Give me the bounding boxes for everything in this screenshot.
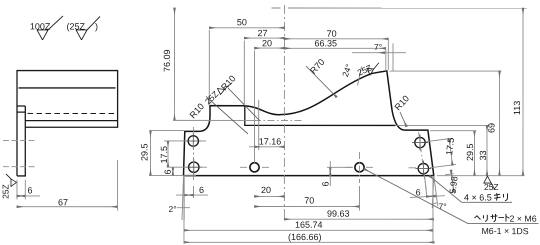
svg-text:25Z: 25Z xyxy=(484,182,499,192)
svg-text:R10: R10 xyxy=(188,101,206,120)
svg-text:33: 33 xyxy=(478,151,488,161)
svg-text:165.74: 165.74 xyxy=(295,220,323,230)
svg-text:6: 6 xyxy=(27,185,32,195)
svg-text:25Z: 25Z xyxy=(0,184,10,199)
svg-text:6: 6 xyxy=(163,169,173,174)
svg-text:5.98: 5.98 xyxy=(448,176,460,195)
svg-text:29.5: 29.5 xyxy=(139,143,149,161)
svg-text:(166.66): (166.66) xyxy=(288,232,322,242)
svg-text:17.5: 17.5 xyxy=(444,137,456,156)
svg-text:113: 113 xyxy=(512,101,522,115)
svg-text:99.63: 99.63 xyxy=(327,209,350,219)
svg-text:66.35: 66.35 xyxy=(315,38,338,48)
svg-text:69: 69 xyxy=(486,123,496,133)
svg-text:2 × M6: 2 × M6 xyxy=(509,214,536,224)
svg-text:27: 27 xyxy=(258,28,268,38)
svg-text:76.09: 76.09 xyxy=(162,49,172,72)
svg-text:70: 70 xyxy=(327,29,337,39)
svg-text:7°: 7° xyxy=(374,42,382,52)
svg-text:R70: R70 xyxy=(308,57,326,76)
svg-text:M6-1 × 1DS: M6-1 × 1DS xyxy=(481,226,528,236)
svg-text:20: 20 xyxy=(262,38,272,48)
svg-text:): ) xyxy=(95,21,98,31)
svg-text:6: 6 xyxy=(199,185,204,195)
svg-text:50: 50 xyxy=(237,17,247,27)
svg-text:2°: 2° xyxy=(168,204,176,214)
svg-text:20: 20 xyxy=(261,185,271,195)
svg-text:67: 67 xyxy=(58,197,68,207)
svg-text:25Z: 25Z xyxy=(356,63,373,78)
svg-text:70: 70 xyxy=(304,196,314,206)
svg-text:R10: R10 xyxy=(393,93,411,112)
svg-text:17.16: 17.16 xyxy=(259,136,282,146)
svg-text:17.5: 17.5 xyxy=(159,146,169,164)
svg-text:29.5: 29.5 xyxy=(465,144,475,162)
svg-text:4 × 6.5: 4 × 6.5 xyxy=(464,193,492,203)
svg-text:6: 6 xyxy=(320,181,330,186)
svg-text:24°: 24° xyxy=(340,63,354,79)
svg-text:25Z: 25Z xyxy=(203,89,220,106)
